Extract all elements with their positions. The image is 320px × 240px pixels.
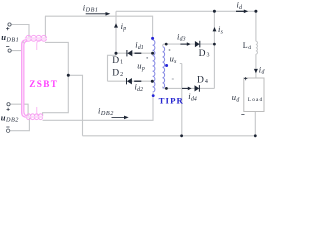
wire: bottom rail [83, 112, 256, 136]
port2 minus mark [6, 126, 9, 128]
junction dot hub [67, 74, 70, 77]
wire: u_s reference vertical down to bottom rail [180, 64, 182, 136]
wire: left bridge rail jog to D2 level [108, 55, 117, 81]
TIPR secondary winding [163, 47, 165, 88]
wire: TIPR secondary top to D3 to right rail [163, 44, 215, 46]
ZSBT1 winding row1 [26, 35, 46, 38]
wire: hub down to ZSBT2 row1 exit [43, 75, 69, 116]
Load box [244, 78, 264, 112]
u_s minus tick [172, 78, 174, 80]
wire: ZSBT1 row2 exit to hub [45, 42, 68, 75]
diode D1 [127, 50, 132, 56]
i_d1 current arrow on D1 branch [135, 52, 142, 54]
diode D4 [195, 85, 200, 92]
port terminal circle port2 bottom [6, 129, 9, 132]
wire: hub to bottom rail corner [68, 75, 82, 136]
svg-text:ZSBT: ZSBT [29, 79, 58, 89]
wire: port2 bottom terminal to ZSBT2 row2 [10, 117, 30, 130]
inductor Ld winding [256, 41, 258, 54]
wire: ZSBT2 row2 exit to TIPR primary bottom [43, 93, 153, 120]
junction dot top rail load branch [254, 10, 257, 13]
wire: TIPR secondary bottom to D4 [163, 87, 215, 89]
wire: load branch upper [255, 11, 257, 78]
wire: D1 branch [116, 52, 152, 54]
junction dot D1 tap [151, 52, 154, 55]
diode D3 [195, 41, 200, 48]
TIPR secondary middle polarity dot (blue) [165, 64, 168, 67]
svg-text:TIPR: TIPR [159, 96, 184, 106]
i_d arrow down on load branch [254, 69, 258, 73]
junction dot secondary bottom [165, 87, 168, 90]
ZSBT1 core band [25, 37, 47, 39]
junction dot bottom rail load [254, 134, 257, 137]
junction dot D2 tap [151, 80, 154, 83]
junction dot bottom rail u_s branch [180, 134, 183, 137]
junction dot D3 at right rail [213, 43, 216, 46]
port terminal circle port1 bottom [8, 49, 11, 52]
junction dot secondary top [165, 43, 168, 46]
wire: left bridge rail upper [115, 11, 117, 55]
svg-text:Load: Load [248, 97, 263, 103]
TIPR primary winding [153, 40, 155, 92]
wire: ZSBT1 row1 exit up to feed wire [44, 16, 46, 38]
TIPR primary bottom polarity dot (blue) [152, 94, 155, 97]
i_s arrow on right rail [213, 27, 217, 31]
polarity star near secondary top [169, 49, 171, 51]
port terminal circle port2 top [7, 103, 10, 106]
ZSBT1 winding row2 [26, 39, 46, 41]
ZSBT pink link left pair [22, 43, 24, 115]
ZSBT pink link right line [37, 40, 41, 116]
wire: u_DB1 positive feed from ZSBT1 to TIPR primary top [45, 16, 153, 37]
wire: port1 top terminal to ZSBT1 row1 [11, 25, 29, 39]
wire: port1 bottom terminal to ZSBT1 row2 [11, 41, 23, 51]
diode D2 [127, 78, 132, 84]
junction dot top rail right bridge [213, 10, 216, 13]
wire: D2 branch [108, 80, 153, 82]
junction dot rail-D1 [115, 52, 118, 55]
port1 minus mark [6, 45, 9, 47]
u_d minus mark [241, 114, 244, 116]
port terminal circle port1 top [8, 23, 11, 26]
wire: top rail [116, 10, 256, 12]
i_d2 current arrow on D2 branch [134, 80, 141, 82]
ZSBT2 winding row2 [27, 117, 43, 119]
wire: port2 top terminal to ZSBT2 row1 [10, 104, 28, 116]
ZSBT2 core band [26, 116, 43, 118]
u_d plus mark [244, 77, 247, 80]
wire: right bridge rail [213, 11, 215, 88]
ZSBT2 winding row1 [27, 114, 43, 116]
polarity star near D1 tap [146, 57, 148, 59]
port2 plus mark [7, 108, 10, 111]
i_p arrow on left rail [114, 23, 118, 27]
TIPR primary top polarity dot (blue) [151, 37, 154, 40]
port1 plus mark [6, 27, 9, 30]
